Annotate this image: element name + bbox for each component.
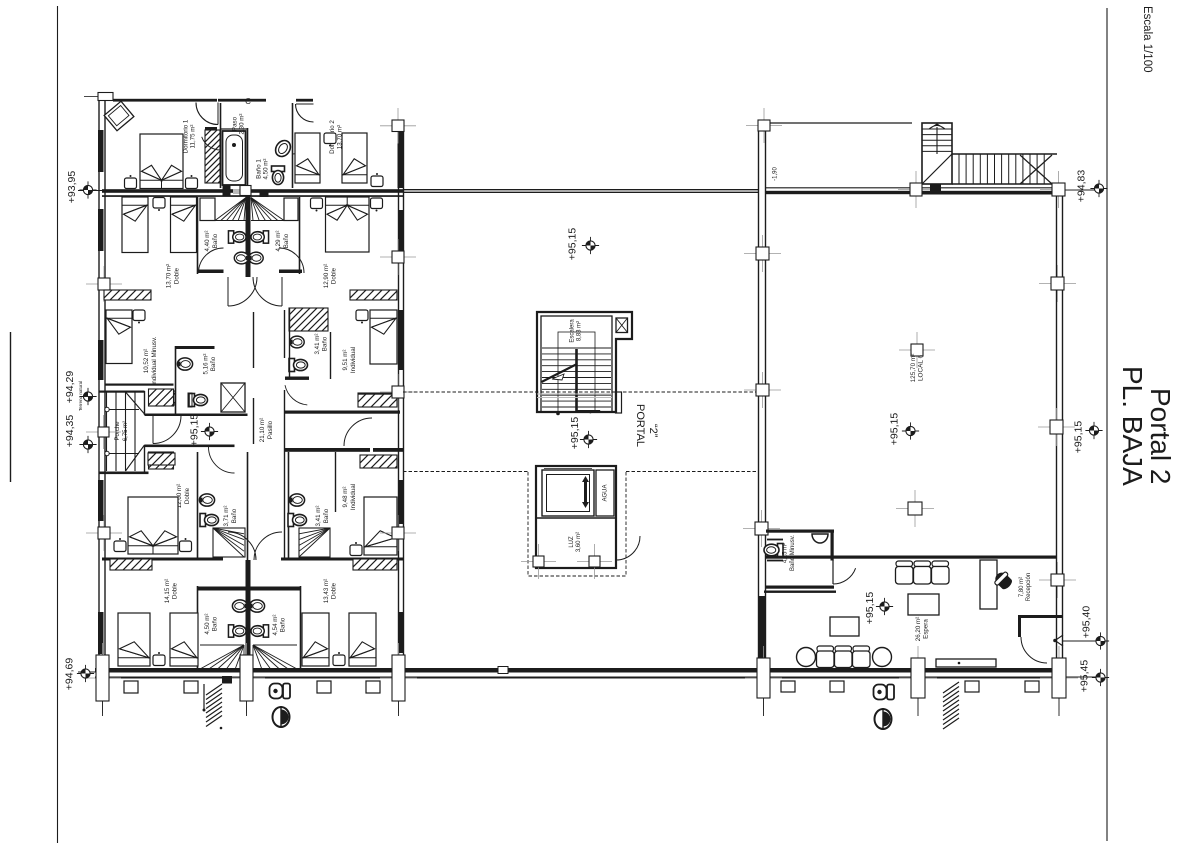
stair door leaf right — [616, 392, 622, 413]
row5: bed 2 — [170, 613, 198, 666]
svg-text:Terreno natural: Terreno natural — [78, 381, 83, 411]
column free b — [896, 490, 934, 527]
row2: bath door arc right — [279, 248, 304, 273]
svg-text:2,30 m²: 2,30 m² — [239, 114, 246, 135]
column right wall b — [1038, 408, 1075, 446]
stair jamb left — [898, 171, 934, 208]
left block left wall inner line — [104, 99, 106, 680]
row2: nightstand right b — [371, 198, 383, 212]
row5: nightstand right mid — [333, 652, 345, 666]
bottom wall lower line — [95, 677, 1066, 679]
row1: wall between dorm1 and paso — [220, 103, 222, 188]
row3: room 9,51 bottom wall — [285, 411, 400, 414]
dimension line to +94,83 — [1062, 189, 1100, 191]
stair jamb right — [1040, 171, 1077, 208]
stair lintel gray lines — [537, 393, 612, 395]
porch top wall — [99, 391, 145, 393]
row2: bath door arc left — [199, 248, 224, 273]
entrance alcove walls — [1018, 615, 1063, 618]
row1: wardrobe top stub — [205, 127, 217, 130]
row5: closet hatch right — [342, 557, 403, 570]
bottom jamb right block a — [745, 646, 782, 710]
row5: bed 1 — [118, 613, 150, 666]
row2: bed left 1 — [122, 197, 148, 253]
column right wall a — [1039, 265, 1076, 302]
row5: top wall right — [281, 558, 403, 561]
svg-text:+95,40: +95,40 — [1081, 606, 1093, 639]
row5: corridor double door arcs bottom — [228, 532, 256, 560]
luz room divider — [536, 517, 616, 519]
bottom wall thick — [95, 668, 1066, 673]
sheet border line right — [1106, 8, 1108, 841]
row1: nightstand left — [125, 175, 137, 189]
dashed line upper — [403, 391, 758, 393]
porch rails — [106, 409, 139, 411]
column right wall c — [1039, 562, 1076, 598]
sofa chairs center — [896, 561, 950, 584]
svg-text:8,83 m²: 8,83 m² — [577, 321, 583, 341]
sofa bottom seats — [817, 646, 871, 668]
svg-text:Portal 2: Portal 2 — [1145, 388, 1176, 485]
stair black door block — [930, 184, 941, 191]
row1: dorm2 nightstand mid — [324, 133, 336, 147]
svg-text:Baño: Baño — [231, 508, 238, 523]
row2: bath bottom wall right — [279, 270, 302, 274]
sill right a — [781, 681, 795, 692]
row4: corridor door arc left — [209, 447, 235, 473]
row1: top right column — [380, 108, 416, 144]
svg-text:Espera: Espera — [923, 619, 930, 639]
svg-text:125,70 m²: 125,70 m² — [910, 354, 917, 383]
axis line below left — [102, 701, 104, 716]
row2: central wall — [246, 196, 251, 277]
svg-text:3,41 m²: 3,41 m² — [315, 506, 322, 527]
left wall dark band low — [758, 596, 765, 658]
svg-text:Baño: Baño — [212, 233, 219, 248]
svg-text:3,60 m²: 3,60 m² — [576, 532, 582, 552]
svg-text:3,71 m²: 3,71 m² — [223, 506, 230, 527]
row3: room 10,52 bottom wall — [106, 384, 174, 386]
svg-text:Baño 1: Baño 1 — [256, 159, 263, 179]
row5: bath zone top walls — [198, 587, 248, 591]
svg-text:7,80 m²: 7,80 m² — [1019, 577, 1025, 597]
right wall column row4b — [380, 515, 416, 551]
coffee table center — [908, 594, 939, 615]
row3: hash hatch left — [136, 389, 188, 405]
bottom jamb right — [380, 643, 417, 713]
svg-text:4,54 m²: 4,54 m² — [272, 615, 279, 636]
stair treads — [542, 348, 611, 407]
svg-text:12,90 m²: 12,90 m² — [323, 264, 330, 288]
row5: top wall left — [102, 558, 223, 561]
row3: banyo 5,16 walls — [175, 346, 177, 414]
porch bottom wall — [99, 472, 149, 475]
svg-text:21,10 m²: 21,10 m² — [259, 418, 266, 442]
window sill d — [366, 681, 380, 693]
banyo minusv right wall — [831, 530, 834, 561]
symbol circle below right — [875, 708, 892, 730]
svg-text:Baño: Baño — [323, 508, 330, 523]
row3: corridor wall right — [284, 310, 286, 358]
svg-text:14,15 m²: 14,15 m² — [164, 579, 171, 603]
row4: banyo 3,41b wc — [288, 514, 307, 527]
stair vent shaft X box — [616, 318, 628, 333]
dimension line to +95,45 — [1066, 676, 1100, 678]
portal bottom wall notch — [498, 667, 508, 674]
bottom jamb right block b — [899, 646, 937, 710]
svg-text:“2”: “2” — [647, 424, 659, 438]
svg-text:6,75 m²: 6,75 m² — [123, 421, 129, 441]
row3: bed right vertical — [370, 310, 397, 364]
row2: bath left wall — [197, 197, 199, 274]
row4: bed right vertical — [364, 497, 397, 555]
row3: nightstand 10,52 — [133, 310, 145, 324]
row4: banyo 3,71 walls — [197, 452, 199, 560]
row3: hash hatch right — [344, 391, 405, 407]
row2: double bed right — [326, 197, 370, 252]
row5: fan shower left — [200, 645, 244, 669]
stair core outer wall — [537, 312, 632, 412]
ground hatch below right block — [943, 682, 959, 729]
dashed line lower — [403, 471, 528, 473]
party wall right block band — [766, 191, 1056, 194]
svg-text:Pasillo: Pasillo — [267, 420, 274, 439]
sill right b — [830, 681, 844, 692]
row5: sinks pair — [232, 600, 247, 612]
ext stair lower dark band — [922, 192, 1055, 195]
row1: wardrobe hatch — [152, 128, 273, 183]
row4: banyo 3,41b walls — [288, 452, 290, 560]
svg-text:Baño: Baño — [280, 617, 287, 632]
svg-text:Doble: Doble — [184, 487, 191, 504]
reception office chair — [992, 569, 1015, 592]
coffee table bottom — [830, 617, 859, 636]
fold mark far left — [10, 332, 12, 482]
right wall window band row2 — [398, 210, 404, 251]
row3: corridor double door arcs — [228, 277, 257, 306]
row2: fan door left — [215, 198, 246, 221]
corner column right block — [746, 108, 782, 143]
stair down arrow — [587, 410, 601, 414]
svg-text:+95,15: +95,15 — [567, 228, 579, 261]
banyo minusv door leaf — [832, 560, 834, 584]
porch diagonals — [126, 392, 145, 414]
row3: bath 3,41 bottom door arc — [285, 385, 307, 405]
sill right d — [1025, 681, 1039, 692]
entrance door arc — [1021, 637, 1047, 663]
row3: nightstand 9,51 — [356, 310, 368, 324]
party wall central thin lines — [403, 189, 758, 191]
reception desk vertical — [980, 560, 997, 609]
left wall column row2/3 — [86, 266, 122, 302]
row4: closet hatch right — [347, 453, 410, 468]
hatch box above porch — [132, 387, 191, 406]
svg-text:Baño: Baño — [212, 616, 219, 631]
banyo minusv bottom wall — [766, 586, 834, 589]
column free a — [899, 332, 935, 368]
dim line door to +95,40 — [1063, 640, 1097, 642]
banyo minusv lower wall — [764, 591, 836, 593]
row1: dorm2 nightstand right — [371, 173, 383, 187]
svg-text:Doble: Doble — [174, 267, 181, 284]
left wall window band row4 — [98, 480, 104, 521]
row4: banyo 3,71 sink — [199, 494, 214, 506]
svg-text:C: C — [245, 97, 251, 106]
left wall window band row3 — [98, 340, 104, 380]
row3: right bath wall — [289, 308, 291, 378]
porch stair treads — [107, 392, 136, 471]
banyo minusv top wall — [766, 530, 834, 533]
row2: bidet pair — [234, 252, 248, 264]
left wall column row4 — [86, 515, 122, 551]
row4: hall door arc right apt — [344, 418, 372, 446]
party wall main horizontal left block — [102, 189, 403, 193]
svg-text:-1,90: -1,90 — [773, 167, 779, 181]
row5: closet hatch left — [99, 557, 160, 570]
party wall right block thin — [766, 187, 1056, 189]
row4: closet hatch left — [136, 451, 182, 465]
lift arrow — [584, 479, 587, 505]
elevator top double line — [544, 468, 592, 470]
svg-text:13,70 m²: 13,70 m² — [166, 264, 173, 288]
svg-text:4,50 m²: 4,50 m² — [263, 159, 270, 180]
sofa group bottom: chair circle left — [797, 648, 816, 667]
left block top wall — [113, 99, 217, 102]
column left wall c — [743, 510, 780, 547]
column left wall a — [744, 235, 781, 272]
dimension line to +93,95 — [78, 190, 102, 192]
row4: top wall right apartment — [285, 448, 370, 452]
row3: right bath 3,41 shower hatch — [266, 306, 347, 331]
svg-text:PORTAL: PORTAL — [634, 404, 646, 447]
svg-text:Escala 1/100: Escala 1/100 — [1141, 6, 1153, 73]
wc symbol below right — [874, 685, 895, 700]
stair inner wall — [541, 316, 612, 412]
right wall window band row4 — [398, 480, 404, 524]
axis stubs below right block — [763, 698, 765, 716]
black stub below wall — [222, 676, 232, 684]
svg-text:Individual: Individual — [350, 484, 357, 510]
top wall corner box — [98, 93, 113, 101]
row2: shower rect right — [284, 198, 298, 221]
ext stair vertical flight — [922, 123, 952, 184]
svg-text:Escalera: Escalera — [570, 319, 576, 343]
svg-text:+95,15: +95,15 — [889, 413, 901, 446]
window sill a — [124, 681, 138, 693]
svg-text:+93,95: +93,95 — [66, 171, 78, 204]
row4: nightstand a — [114, 538, 126, 552]
row4: banyo 3,41b sink — [289, 494, 304, 506]
row1: banyo1 sink — [273, 138, 294, 160]
terrace door arc 2 — [296, 104, 314, 122]
banyo minusv toilet — [764, 544, 783, 557]
hall bottom wall — [145, 445, 235, 448]
row3: banyo 5,16 sink — [177, 358, 192, 370]
row5: wc pair — [228, 625, 246, 637]
row1: dorm2 bed 2 — [342, 133, 367, 183]
svg-text:+95,15: +95,15 — [864, 592, 876, 625]
row2: bath right wall — [299, 197, 301, 274]
luz door arc — [616, 536, 640, 560]
svg-text:+95,15: +95,15 — [1073, 421, 1085, 454]
svg-text:Individual: Individual — [350, 347, 357, 373]
row4: double bed left — [128, 497, 178, 554]
sheet border line left — [57, 6, 59, 843]
row3: shower box with X — [221, 383, 245, 412]
right wall window band row3 — [398, 310, 404, 370]
sill right c — [965, 681, 979, 692]
svg-text:Baño: Baño — [322, 336, 329, 351]
closet hatch row2-3 left — [94, 288, 162, 300]
row2: nightstand right a — [311, 198, 323, 212]
ext stair diagonals — [922, 154, 952, 184]
terrace door arc 1 — [196, 103, 218, 125]
agua shaft — [596, 470, 614, 516]
svg-text:+94,29: +94,29 — [64, 371, 76, 404]
svg-text:Baño: Baño — [283, 233, 290, 248]
left block right wall outer — [403, 120, 405, 680]
window sill b — [184, 681, 198, 693]
left wall window band row1 — [98, 130, 104, 172]
row3: bed left vertical — [106, 310, 132, 364]
row3: bath bottom wall — [145, 414, 248, 417]
row1: bed Dormitorio 1 — [140, 134, 183, 189]
hall top wall — [145, 414, 179, 416]
right wall dark band top — [398, 131, 405, 188]
row1: armchair Dormitorio 1 — [104, 101, 134, 130]
row5: nightstand left mid — [153, 652, 165, 666]
entrance V mark — [1055, 635, 1063, 646]
row2: wc pair top — [228, 231, 246, 243]
banyo minusv sink — [812, 534, 828, 543]
svg-text:PL. BAJA: PL. BAJA — [1117, 366, 1148, 486]
row1: paso door arcs — [202, 137, 221, 150]
svg-text:Doble: Doble — [172, 582, 179, 599]
svg-text:Porche: Porche — [115, 421, 121, 441]
row2: bed left 2 — [171, 197, 197, 253]
dimension line to +94,69 — [78, 671, 95, 673]
closet hatch row2-3 right — [340, 288, 408, 300]
stair up arrow diagonal — [542, 365, 577, 383]
left wall window band row2 — [98, 209, 104, 251]
stair guide rect — [558, 332, 595, 412]
row3: corridor wall left — [253, 312, 255, 368]
left wall axis box porch — [86, 415, 121, 449]
svg-text:LUZ: LUZ — [569, 536, 575, 548]
column left wall b — [744, 372, 781, 408]
elevator dashed box — [528, 472, 626, 576]
stair stringer — [575, 349, 578, 412]
svg-text:10,52 m²: 10,52 m² — [143, 349, 150, 373]
svg-text:26,20 m²: 26,20 m² — [915, 617, 922, 641]
right wall column row4 — [380, 374, 416, 410]
svg-text:13,43 m²: 13,43 m² — [323, 579, 330, 603]
row1: bathtub — [223, 131, 246, 185]
svg-text:+94,69: +94,69 — [64, 658, 76, 691]
elevator outer wall — [536, 466, 616, 568]
svg-text:9,48 m²: 9,48 m² — [342, 487, 349, 508]
svg-text:5,16 m²: 5,16 m² — [203, 354, 210, 375]
row2: bath bottom wall left — [198, 270, 224, 274]
row1: banyo1 wc — [272, 166, 285, 185]
window sill c — [317, 681, 331, 693]
right block right wall — [1056, 184, 1058, 671]
hall entry door arc — [153, 416, 181, 444]
north symbol below left — [273, 706, 290, 728]
ext stair horizontal run — [952, 153, 1057, 155]
svg-text:+94,35: +94,35 — [64, 415, 76, 448]
row4: banyo 3,71 wc — [200, 514, 219, 527]
party wall jamb blocks — [223, 185, 231, 196]
svg-text:4,40 m²: 4,40 m² — [204, 231, 211, 252]
svg-text:Baño: Baño — [210, 356, 217, 371]
row1: nightstand right — [186, 175, 198, 189]
row5: bath left wall — [197, 586, 199, 669]
row5: bed 4 — [349, 613, 376, 666]
right block left wall — [758, 131, 760, 671]
row1: wall banyo1/dorm2 — [292, 103, 294, 188]
svg-text:+95,45: +95,45 — [1079, 660, 1091, 693]
row4: bench right — [350, 542, 362, 556]
reception top wall — [766, 556, 1057, 559]
wc symbol below left — [270, 684, 291, 699]
party wall lower line left block — [102, 195, 403, 197]
left block left wall outer line — [98, 99, 100, 680]
svg-text:4,50 m²: 4,50 m² — [204, 614, 211, 635]
svg-text:+95,15: +95,15 — [569, 417, 581, 450]
svg-text:Doble: Doble — [331, 267, 338, 284]
reception counter bottom — [936, 659, 996, 667]
row1: dorm2 bed 1 — [295, 133, 320, 183]
svg-text:9,51 m²: 9,51 m² — [342, 350, 349, 371]
bottom jamb left — [84, 643, 121, 713]
row4: nightstand b — [180, 538, 192, 552]
row5: bed 3 — [302, 613, 329, 666]
row2: shower rect left — [200, 198, 215, 221]
svg-text:LOCAL 6: LOCAL 6 — [918, 355, 925, 381]
left block right wall inner — [398, 120, 400, 680]
right wall column row2/3 — [380, 239, 416, 275]
row5: fan shower right — [253, 645, 297, 669]
hatch box below porch — [132, 450, 191, 469]
svg-text:AGUA: AGUA — [603, 484, 609, 501]
row1: wall tub/banyo1 — [247, 128, 249, 188]
row4: fan shower 3,41b — [299, 528, 330, 557]
right wall window band row5 — [398, 612, 404, 653]
row5: central wall bottom — [246, 560, 251, 670]
row2: nightstand mid — [153, 198, 165, 212]
svg-text:+94,83: +94,83 — [1076, 170, 1088, 203]
bottom jamb center — [228, 643, 265, 713]
row5: bath right wall — [300, 586, 302, 669]
svg-text:4,15 m²: 4,15 m² — [783, 543, 789, 563]
svg-text:Baño Minusv.: Baño Minusv. — [790, 535, 796, 571]
sofa group bottom: chair circle right — [873, 648, 892, 667]
svg-text:3,41 m²: 3,41 m² — [314, 334, 321, 355]
row3: right bath fixtures — [290, 336, 304, 348]
row3: banyo 5,16 wc — [189, 394, 208, 407]
svg-text:Individual Minusv.: Individual Minusv. — [151, 336, 158, 385]
svg-text:Recepción: Recepción — [1026, 573, 1032, 601]
row2: fan door right — [251, 198, 284, 221]
porch side wall right upper — [144, 391, 146, 415]
ground hatch below left block — [206, 684, 222, 727]
svg-text:+95,15: +95,15 — [189, 414, 201, 447]
row4: fan shower 3,71 — [213, 528, 244, 557]
right block top thin line — [769, 122, 912, 124]
lift car — [542, 470, 594, 516]
bottom jamb right block c — [1040, 646, 1078, 710]
